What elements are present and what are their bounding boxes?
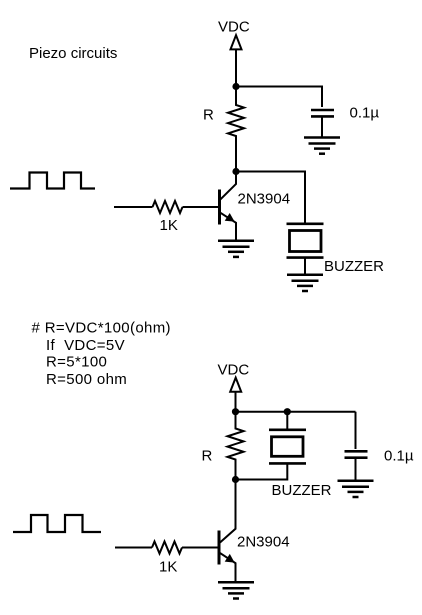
- node junction on VDC rail (top): [232, 83, 239, 90]
- svg-text:VDC: VDC: [218, 362, 250, 379]
- svg-text:0.1µ: 0.1µ: [384, 448, 414, 465]
- node junction buzzer tap (bottom): [284, 408, 291, 415]
- capacitor C 0.1u (bottom): [345, 451, 368, 457]
- svg-text:1K: 1K: [159, 559, 177, 576]
- transistor Q2 2N3904 (bottom): [219, 480, 236, 582]
- wire capacitor to ground (top): [321, 118, 323, 138]
- node junction on VDC rail left (bottom): [232, 408, 239, 415]
- ground (bottom capacitor): [338, 481, 374, 497]
- buzzer BZ (top): [287, 224, 324, 275]
- resistor 1K (bottom): [152, 542, 182, 554]
- wire VDC arrow to rail node (top): [235, 49, 237, 86]
- wire VDC arrow to rail node (bottom): [235, 392, 237, 412]
- capacitor C 0.1u (top): [311, 110, 334, 116]
- svg-text:1K: 1K: [160, 217, 178, 234]
- resistor 1K (top): [153, 201, 183, 213]
- svg-text:BUZZER: BUZZER: [324, 258, 384, 275]
- square wave input symbol (bottom): [13, 515, 101, 532]
- svg-text:R: R: [202, 448, 213, 465]
- svg-text:BUZZER: BUZZER: [272, 482, 332, 499]
- buzzer BZ (bottom): [236, 412, 307, 480]
- ground (bottom emitter): [218, 582, 254, 598]
- power symbol VDC arrow (bottom circuit): [230, 378, 241, 392]
- resistor R (bottom): [228, 412, 244, 480]
- resistor R (top): [228, 87, 244, 172]
- svg-text:0.1µ: 0.1µ: [350, 105, 380, 122]
- svg-text:2N3904: 2N3904: [237, 534, 290, 551]
- ground (top capacitor): [304, 138, 340, 154]
- svg-text:R=500 ohm: R=500 ohm: [46, 371, 127, 388]
- node collector junction (top): [232, 168, 239, 175]
- svg-text:2N3904: 2N3904: [238, 191, 291, 208]
- wire rail node to capacitor (top): [236, 87, 322, 108]
- svg-text:Piezo circuits: Piezo circuits: [29, 45, 117, 62]
- svg-text:If VDC=5V: If VDC=5V: [46, 337, 125, 354]
- wire 1K to base (top): [183, 206, 219, 208]
- ground (top emitter): [218, 241, 254, 257]
- square wave input symbol (top): [10, 173, 95, 189]
- svg-text:# R=VDC*100(ohm): # R=VDC*100(ohm): [32, 320, 171, 337]
- wire rail to capacitor top (bottom): [355, 412, 357, 449]
- power symbol VDC arrow (top circuit): [231, 35, 242, 49]
- wire VDC rail to capacitor (bottom): [236, 411, 356, 413]
- wire input to 1K resistor (top): [114, 206, 153, 208]
- svg-text:VDC: VDC: [218, 19, 250, 36]
- wire collector node to buzzer (top): [236, 172, 305, 223]
- wire 1K to base (bottom): [182, 547, 218, 549]
- svg-text:R=5*100: R=5*100: [46, 354, 107, 371]
- wire input to 1K resistor (bottom): [115, 547, 152, 549]
- ground (top buzzer): [287, 275, 323, 291]
- wire capacitor to ground (bottom): [355, 459, 357, 481]
- transistor Q1 2N3904 (top): [220, 172, 237, 241]
- node collector junction (bottom): [232, 476, 239, 483]
- svg-text:R: R: [203, 107, 214, 124]
